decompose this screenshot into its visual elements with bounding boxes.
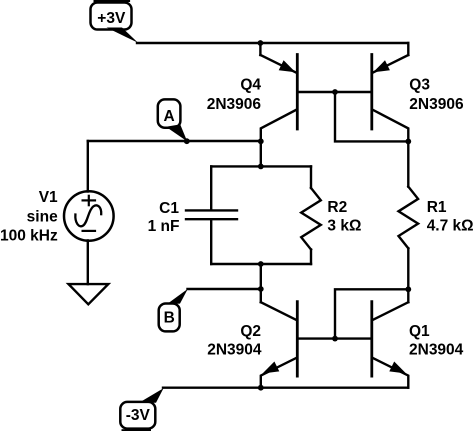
source V1 circle [64,191,114,241]
Q2 emitter arrow (NPN, points away from base) [263,362,280,374]
V1 plus sign [83,196,95,205]
svg-text:Q1: Q1 [409,323,430,340]
wire Q1 emitter diagonal [372,358,408,388]
resistor R1 zigzag [399,187,419,249]
resistor R2 branch [301,166,321,264]
Q1 emitter arrow [389,362,406,374]
wire Q3 collector diagonal [372,109,408,141]
wire C1 bottom lead [210,220,212,264]
Q3 emitter arrow [373,60,390,72]
wire tank top edge [211,165,311,167]
node A junction dot [184,138,190,144]
Q1 base bar [370,302,373,377]
Q4 emitter arrow (PNP, points to base bar) [279,60,296,72]
node base tie dot [332,89,338,95]
node tank top tee dot [258,164,264,170]
wire V1 bottom lead [87,240,89,284]
wire collector node down to tank top [260,141,262,166]
clipped label border top edge [94,0,131,2]
svg-text:-3V: -3V [126,407,151,424]
wire R2 top lead [310,166,312,188]
svg-text:4.7 kΩ: 4.7 kΩ [427,218,474,235]
wire tank bottom to node B [260,264,262,289]
wire node A horizontal [88,140,261,142]
wire Q4 emitter diagonal [260,55,297,73]
wire base tie to R1 bottom node [335,289,408,338]
wire C1 top lead [210,166,212,209]
node R1 top dot [405,139,411,145]
svg-text:Q2: Q2 [240,323,261,340]
svg-text:2N3904: 2N3904 [409,341,464,358]
svg-text:1 nF: 1 nF [148,218,180,235]
wire Q4 collector diagonal [261,109,297,141]
wire Q4-Q3 base tie [297,91,372,93]
svg-text:R2: R2 [327,199,347,216]
Q3 base bar [370,55,373,130]
wire Q1 collector diagonal [372,302,408,320]
wire Q1 collector stub [407,289,409,302]
C1 top plate [186,209,237,211]
Q4 base bar [296,55,299,130]
node bottom base tie dot [332,336,338,342]
svg-text:2N3904: 2N3904 [207,341,262,358]
svg-text:2N3906: 2N3906 [207,96,262,113]
wire Q4 emitter stub [259,43,261,55]
wire top rail [137,42,408,44]
node A-wire / Q4 collector dot [258,138,264,144]
svg-text:Q4: Q4 [240,77,261,94]
C1 bottom plate [186,218,237,220]
wire R2 bottom lead [310,250,312,265]
svg-text:Q3: Q3 [409,77,430,94]
wire Q2 collector stub [260,289,262,302]
svg-text:A: A [163,108,174,125]
svg-text:B: B [164,310,175,327]
ground [69,284,109,304]
resistor R1 branch [399,141,419,289]
V1 minus sign [83,230,95,232]
capacitor C1 branch [186,166,237,264]
transistor Q1 (NPN 2N3904) [372,289,409,387]
svg-text:sine: sine [27,208,58,225]
node bottom-rail junction dot [258,385,264,391]
wire node B horizontal [188,288,261,290]
net label B [159,289,188,332]
svg-text:2N3906: 2N3906 [409,96,464,113]
V1 sine wave [75,205,101,226]
node B tee dot [258,286,264,292]
net label A [158,99,187,141]
svg-text:100 kHz: 100 kHz [0,227,58,244]
node R1 bottom dot [405,286,411,292]
wire tank bottom edge [211,263,311,265]
transistor Q4 (PNP 2N3906) [260,43,297,141]
svg-text:+3V: +3V [97,10,126,27]
clipped label border bottom edge [122,429,152,431]
wire Q3 emitter diagonal [372,55,408,73]
wire Q2 collector diagonal [261,302,297,320]
transistor Q3 (PNP 2N3906) [372,43,409,141]
net label +3V [91,3,139,43]
svg-text:3 kΩ: 3 kΩ [327,218,361,235]
node tank bottom tee dot [258,261,264,267]
wire bottom rail [163,387,408,389]
wire base tie to R1 top node [335,92,408,141]
resistor R2 zigzag [301,188,321,250]
svg-text:C1: C1 [159,200,179,217]
wire Q3 emitter stub [407,43,409,55]
net label -3V [120,388,163,428]
wire Q2 emitter diagonal [261,358,297,388]
transistor Q2 (NPN 2N3904) [261,289,298,388]
wire Q2-Q1 base tie [297,337,372,339]
Q2 base bar [296,302,299,377]
wire R1 bottom lead [407,248,409,289]
svg-text:R1: R1 [427,199,447,216]
wire V1 top lead [87,141,89,192]
svg-text:V1: V1 [39,189,58,206]
node top-rail junction dot [258,40,264,46]
wire R1 top lead [407,141,409,186]
